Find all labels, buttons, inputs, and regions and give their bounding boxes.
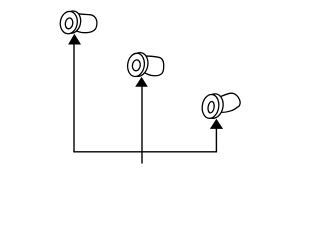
bushing 2 flange back rim <box>128 51 150 78</box>
arrow to bushing 2 <box>135 77 148 87</box>
bushing 1 flange face <box>59 10 79 35</box>
bushing 2 <box>126 51 164 78</box>
bushing 2 hole <box>132 59 141 71</box>
bushing 2 flange face <box>126 52 146 78</box>
leader line horizontal <box>73 151 217 153</box>
leader line left vertical <box>73 44 75 152</box>
bushing 3 hole <box>207 101 215 113</box>
bushing 2 body cylinder <box>143 56 164 76</box>
arrow to bushing 1 <box>68 34 81 45</box>
leader line middle vertical <box>141 86 143 163</box>
bushing 1 hole <box>65 17 74 29</box>
bushing 3 flange back rim <box>202 92 225 120</box>
leader line right vertical <box>215 128 217 151</box>
bushing 1 <box>59 9 97 35</box>
arrow to bushing 3 <box>210 119 223 129</box>
bushing 3 body cylinder <box>219 93 240 112</box>
bushing 3 <box>201 92 241 120</box>
bushing 3 flange face <box>201 93 221 119</box>
bushing 1 flange back rim <box>62 9 83 34</box>
bushing 1 body cylinder <box>76 14 97 33</box>
